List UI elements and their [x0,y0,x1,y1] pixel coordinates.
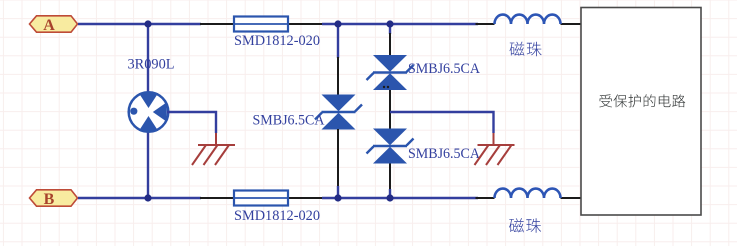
wire: top stub to TVS D2 [389,24,391,34]
label cizhu (top bead) [510,42,525,56]
wire: B to bottom fuse [78,197,201,199]
wire: GDT to ground 1 [167,112,216,133]
TVS diode D1 SMBJ6.5CA (middle) [315,95,362,130]
ground (TVS midpoint) [475,145,515,165]
junction: net B / TVS D3 [386,194,393,201]
pin: TVS D3 bottom [389,164,391,191]
port B [30,190,78,208]
wire: A to top fuse [78,23,201,25]
ground stem 2 [493,133,495,145]
ferrite bead L1 (top) [476,15,582,24]
wire: top fuse to bead [322,23,478,25]
svg-text:SMD1812-020: SMD1812-020 [234,33,320,49]
wire: TVS D3 to bottom wire [389,189,391,198]
label cizhu (bottom bead) [509,218,524,232]
svg-text:SMD1812-020: SMD1812-020 [234,208,320,224]
gas discharge tube V1 3R090L [129,92,169,132]
protected circuit box [581,8,701,216]
pin: TVS D1 top [337,57,339,95]
junction: net B / GDT [144,194,151,201]
svg-text:SMBJ6.5CA: SMBJ6.5CA [253,113,325,129]
ground stem 1 [215,133,217,145]
ground (GDT) [192,145,235,165]
pin: TVS D2 top [389,33,391,55]
junction: net A / TVS D2 [386,20,393,27]
wire: bottom fuse to bead [322,197,478,199]
fuse F2 SMD1812-020 (bottom) [200,191,322,206]
TVS diode D3 SMBJ6.5CA (lower right) [367,129,414,164]
svg-text:3R090L: 3R090L [128,57,175,73]
wire: TVS midpoint to ground 2 [390,112,494,133]
port A [30,16,78,34]
svg-text:B: B [44,191,55,208]
wire: vertical A-line to GDT top [147,24,149,93]
svg-text:SMBJ6.5CA: SMBJ6.5CA [408,61,480,77]
junction: net B / TVS D1 [334,194,341,201]
junction: net A / TVS D1 [334,20,341,27]
pin: TVS D1 bottom [337,129,339,187]
ferrite bead L2 (bottom) [476,189,582,198]
TVS diode D2 SMBJ6.5CA (upper right) [367,55,414,90]
wire: top stub to TVS D1 [337,24,339,58]
fuse F1 SMD1812-020 (top) [200,17,322,32]
pin: between TVS D2 and D3 [389,90,391,129]
wire: GDT bottom to B-line [147,131,149,198]
wire: TVS D1 to bottom wire [337,186,339,198]
svg-text:SMBJ6.5CA: SMBJ6.5CA [408,146,480,162]
junction: net A / GDT [144,20,151,27]
pin number dots D2 [383,86,385,88]
svg-text:A: A [43,17,55,34]
